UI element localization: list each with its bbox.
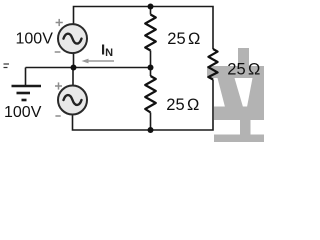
node middle-left junction (71, 65, 77, 71)
wire source V1 bottom lead (73, 54, 75, 68)
wire bottom (73, 80, 214, 131)
wire middle branch upper (150, 7, 152, 15)
node top junction (148, 4, 154, 10)
wire top (74, 7, 214, 50)
resistor R3 (right) (208, 49, 217, 80)
node bottom junction (148, 127, 154, 133)
wire source V2 top lead (72, 68, 74, 86)
source V2 (55, 82, 87, 116)
resistor R1 (top middle) (145, 15, 156, 51)
source V1 (55, 19, 87, 53)
svg-text:100V: 100V (4, 104, 42, 121)
wire middle branch between resistors (150, 51, 152, 77)
svg-text:25 Ω: 25 Ω (227, 61, 260, 79)
edge artifact marks (4, 64, 10, 68)
node middle junction (148, 65, 154, 71)
wire middle (26, 67, 151, 69)
wire middle branch lower (150, 113, 152, 131)
svg-text:25 Ω: 25 Ω (167, 30, 200, 48)
svg-text:25 Ω: 25 Ω (166, 96, 199, 114)
ground (12, 68, 42, 101)
svg-text:100V: 100V (16, 31, 54, 48)
arrow IN (points left) (82, 59, 115, 64)
resistor R2 (bottom middle) (145, 76, 156, 113)
watermark (207, 48, 264, 142)
